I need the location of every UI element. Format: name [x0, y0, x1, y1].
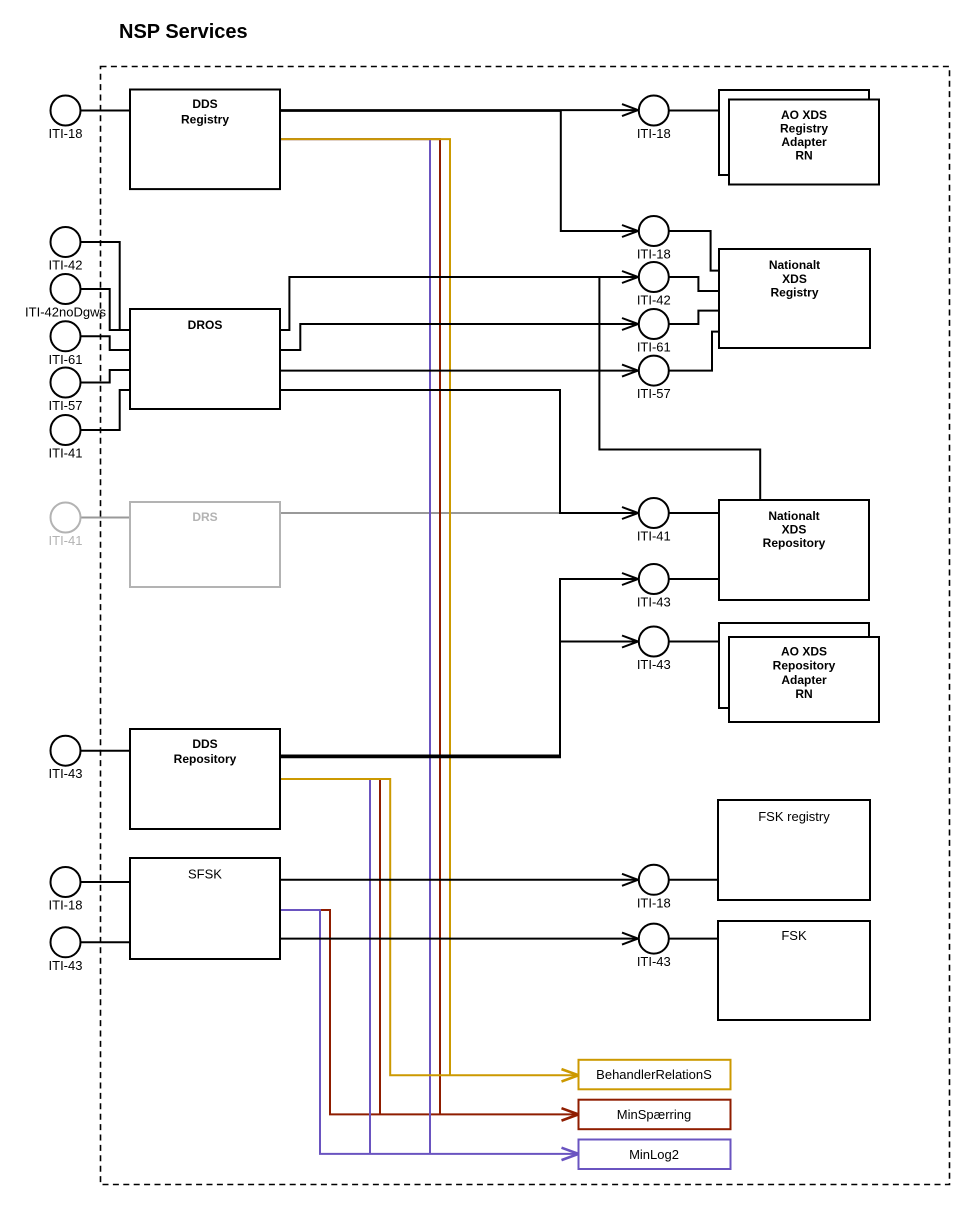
svg-text:Registry: Registry — [780, 122, 828, 136]
svg-text:BehandlerRelationS: BehandlerRelationS — [596, 1067, 712, 1082]
svg-text:DDS: DDS — [192, 737, 217, 751]
svg-text:DROS: DROS — [188, 318, 223, 332]
svg-text:DDS: DDS — [192, 97, 217, 111]
svg-text:Registry: Registry — [770, 286, 818, 300]
svg-text:Adapter: Adapter — [781, 673, 827, 687]
svg-text:ITI-18: ITI-18 — [637, 247, 671, 262]
svg-text:ITI-41: ITI-41 — [637, 529, 671, 544]
svg-text:ITI-41: ITI-41 — [49, 533, 83, 548]
svg-text:ITI-43: ITI-43 — [637, 657, 671, 672]
svg-text:XDS: XDS — [782, 523, 807, 537]
svg-text:Repository: Repository — [763, 536, 826, 550]
svg-text:SFSK: SFSK — [188, 867, 222, 882]
svg-text:Nationalt: Nationalt — [768, 509, 819, 523]
svg-text:ITI-18: ITI-18 — [49, 126, 83, 141]
svg-text:DRS: DRS — [192, 510, 217, 524]
svg-text:ITI-18: ITI-18 — [637, 126, 671, 141]
svg-text:ITI-43: ITI-43 — [637, 595, 671, 610]
svg-text:ITI-41: ITI-41 — [49, 446, 83, 461]
svg-text:ITI-43: ITI-43 — [637, 954, 671, 969]
svg-text:MinLog2: MinLog2 — [629, 1147, 679, 1162]
svg-text:MinSpærring: MinSpærring — [617, 1107, 691, 1122]
svg-text:Adapter: Adapter — [781, 135, 827, 149]
svg-text:FSK registry: FSK registry — [758, 809, 830, 824]
svg-text:XDS: XDS — [782, 272, 807, 286]
svg-text:NSP Services: NSP Services — [119, 21, 248, 43]
svg-text:ITI-57: ITI-57 — [49, 398, 83, 413]
svg-text:Repository: Repository — [174, 752, 237, 766]
svg-text:ITI-42: ITI-42 — [637, 293, 671, 308]
svg-text:ITI-42: ITI-42 — [49, 258, 83, 273]
svg-text:FSK: FSK — [781, 928, 807, 943]
svg-text:ITI-42noDgws: ITI-42noDgws — [25, 305, 106, 320]
svg-text:ITI-61: ITI-61 — [637, 340, 671, 355]
svg-text:ITI-18: ITI-18 — [49, 898, 83, 913]
svg-text:RN: RN — [795, 687, 812, 701]
svg-text:ITI-57: ITI-57 — [637, 386, 671, 401]
svg-text:ITI-43: ITI-43 — [49, 958, 83, 973]
svg-text:AO XDS: AO XDS — [781, 108, 827, 122]
svg-text:ITI-43: ITI-43 — [49, 766, 83, 781]
svg-text:Repository: Repository — [773, 659, 836, 673]
svg-text:ITI-18: ITI-18 — [637, 895, 671, 910]
svg-text:Nationalt: Nationalt — [769, 258, 820, 272]
svg-text:AO XDS: AO XDS — [781, 645, 827, 659]
svg-text:Registry: Registry — [181, 112, 229, 126]
svg-text:ITI-61: ITI-61 — [49, 352, 83, 367]
svg-text:RN: RN — [795, 149, 812, 163]
